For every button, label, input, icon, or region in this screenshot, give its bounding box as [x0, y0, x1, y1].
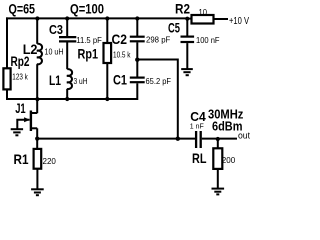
svg-text:Q=100: Q=100	[70, 1, 104, 17]
svg-text:200: 200	[222, 155, 236, 165]
node dot top L2	[35, 16, 39, 20]
svg-text:65.2 pF: 65.2 pF	[146, 76, 172, 86]
svg-text:R1: R1	[14, 151, 29, 167]
ground R1	[31, 189, 44, 195]
svg-text:10.5 k: 10.5 k	[113, 49, 131, 59]
svg-text:3 uH: 3 uH	[74, 76, 88, 86]
transistor J1 source stub	[31, 127, 37, 129]
svg-text:C3: C3	[49, 22, 63, 37]
wire left rail lower	[6, 89, 8, 100]
ground C5	[181, 69, 193, 75]
wire L2 branch top	[36, 18, 38, 43]
svg-text:+10 V: +10 V	[229, 16, 249, 27]
node dot source/R1	[35, 137, 39, 141]
svg-text:220: 220	[43, 156, 57, 166]
svg-text:10 uH: 10 uH	[45, 47, 64, 57]
resistor R1	[34, 149, 42, 169]
wire RL top	[217, 139, 219, 149]
wire output line	[37, 138, 195, 140]
node dot top Rp1	[105, 16, 109, 20]
capacitor C1	[130, 78, 145, 83]
svg-text:C1: C1	[113, 72, 127, 88]
svg-text:L1: L1	[49, 73, 61, 88]
wire C1 bottom to bus	[136, 83, 138, 100]
svg-text:Q=65: Q=65	[9, 1, 36, 17]
svg-text:RL: RL	[192, 150, 207, 166]
svg-text:C2: C2	[112, 31, 128, 47]
wire C3 branch top	[66, 18, 68, 36]
resistor R2	[192, 15, 214, 24]
node dot RL tap	[216, 137, 220, 141]
svg-text:123 k: 123 k	[12, 72, 28, 82]
wire RL bottom	[217, 169, 219, 188]
svg-text:298 pF: 298 pF	[146, 35, 170, 45]
wire R2 to +10V	[214, 18, 229, 20]
transistor J1 channel bar	[30, 111, 32, 132]
wire C5 feed	[186, 17, 188, 35]
inductor L1	[67, 69, 72, 89]
capacitor C4	[196, 131, 201, 148]
node dot C2/C1 tap	[135, 58, 139, 62]
wire tap to output column	[137, 60, 178, 139]
wire Rp1 branch bottom	[106, 63, 108, 99]
ground RL	[212, 189, 225, 195]
resistor Rp2	[3, 68, 10, 89]
transistor J1 gate wire	[17, 120, 29, 129]
wire Rp1 branch top	[106, 18, 108, 43]
transistor J1 gate arrow	[24, 117, 30, 122]
wire bottom bus	[6, 98, 137, 100]
capacitor C3	[59, 37, 76, 41]
wire top rail	[6, 17, 188, 19]
node dot bus L1	[65, 97, 69, 101]
wire C2 to tap node	[136, 42, 138, 76]
svg-text:out: out	[238, 131, 250, 141]
wire J1 source down	[36, 128, 38, 139]
svg-text:Rp2: Rp2	[11, 54, 30, 69]
wire C4 to out	[202, 138, 237, 140]
svg-text:100 nF: 100 nF	[196, 35, 220, 45]
wire C5 to ground	[186, 43, 188, 68]
svg-text:C5: C5	[168, 20, 180, 35]
wire C3 to L1	[66, 42, 68, 69]
capacitor C5	[181, 37, 195, 42]
svg-text:10: 10	[199, 7, 208, 17]
svg-text:J1: J1	[15, 101, 26, 116]
node dot top R2/C5	[185, 17, 189, 21]
wire R1 bottom	[36, 169, 38, 189]
wire left rail upper	[6, 17, 8, 68]
capacitor C2	[130, 37, 145, 42]
wire L2 branch bottom	[36, 64, 38, 99]
svg-text:1 nF: 1 nF	[190, 122, 204, 131]
node dot output column	[176, 137, 180, 141]
resistor RL	[213, 148, 222, 169]
svg-text:11.5 pF: 11.5 pF	[76, 35, 102, 45]
inductor L2	[37, 44, 42, 65]
node dot bus Rp1	[105, 97, 109, 101]
wire R1 top	[36, 139, 38, 150]
svg-text:R2: R2	[175, 0, 190, 16]
transistor J1 drain stub	[31, 112, 37, 114]
resistor Rp1	[104, 43, 112, 63]
transistor J1 drain wire	[36, 99, 38, 113]
wire L1 bottom	[66, 89, 68, 99]
node dot top C2	[135, 16, 139, 20]
node dot bus L2/drain	[35, 97, 39, 101]
wire C2 branch top	[136, 18, 138, 36]
wire rail to R2	[186, 18, 191, 20]
node dot top C3	[65, 16, 69, 20]
ground J1 gate	[11, 129, 23, 135]
svg-text:Rp1: Rp1	[78, 46, 99, 62]
